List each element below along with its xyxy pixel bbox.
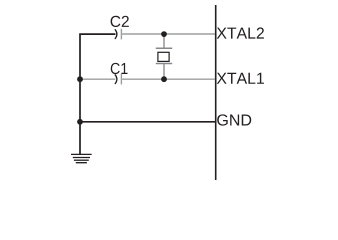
- crystal bottom stem (gray): [163, 64, 165, 80]
- C2 curved plate (black): [115, 29, 117, 39]
- crystal Y1: [156, 34, 172, 79]
- C2 bar plate (gray): [120, 29, 122, 40]
- wire: trunk junction to C1 left plate (XTAL1 row, gray): [80, 78, 115, 80]
- wire: GND row (black): [80, 121, 215, 123]
- C1 bar plate (gray): [120, 74, 122, 85]
- wire: C2 bar plate to device edge (XTAL2 row, gray): [122, 33, 215, 35]
- crystal body box (black): [158, 52, 169, 61]
- junction dot trunk/GND: [77, 119, 83, 125]
- capacitor C1: [115, 74, 122, 85]
- C1 curved plate (black): [115, 74, 117, 84]
- ground symbol: [71, 154, 92, 162]
- label XTAL1: [217, 73, 264, 84]
- label XTAL2: [217, 27, 264, 38]
- label C1: [111, 63, 128, 74]
- wire: trunk top corner to C2 left plate (XTAL2 row, black segment): [80, 34, 115, 154]
- crystal top stem (gray): [163, 34, 165, 48]
- label GND: [217, 114, 251, 125]
- crystal bottom plate (gray): [156, 63, 172, 65]
- junction dot XTAL2/crystal: [161, 31, 167, 37]
- label C2: [111, 16, 129, 27]
- capacitor C2: [115, 29, 122, 40]
- junction dot XTAL1/crystal: [161, 76, 167, 82]
- wire: C1 bar plate to device edge (XTAL1 row, gray): [122, 78, 215, 80]
- device edge line (right vertical): [215, 5, 217, 180]
- junction dot trunk/XTAL1: [77, 76, 83, 82]
- crystal top plate (gray): [156, 47, 172, 49]
